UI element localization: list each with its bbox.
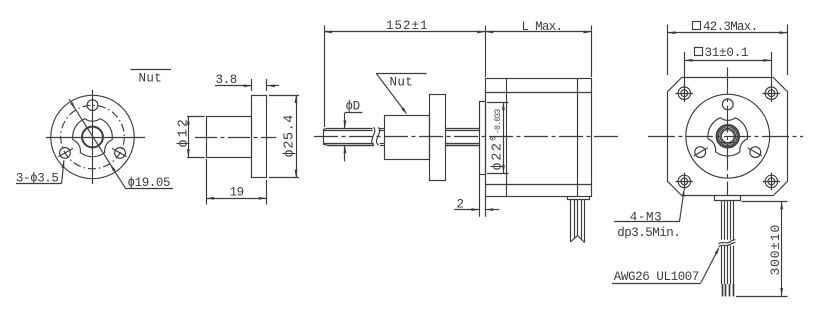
svg-text:dp3.5Min.: dp3.5Min. [617, 226, 680, 240]
nut face vertical centerline [92, 90, 94, 184]
wires (right view) lower part [721, 246, 723, 284]
phi22 tolerance: extension lines [487, 102, 509, 104]
motor pilot boss [480, 102, 486, 175]
Nut leader arrow [376, 73, 406, 113]
leadscrew left segment [328, 128, 373, 130]
3-phi3.5 label underline [16, 183, 62, 185]
phiD label underline [345, 112, 363, 114]
face hole top [722, 99, 733, 110]
phi19.05 label underline [126, 188, 173, 190]
152+-1 dimension line [324, 31, 485, 33]
shared extension line at motor face [485, 26, 487, 78]
motor body outline [486, 79, 592, 197]
mounting hole M3 bottom-right [768, 178, 775, 185]
sq31 dimension line [684, 60, 771, 62]
sq42.3 dimension line [668, 32, 788, 34]
svg-text:3.8: 3.8 [216, 73, 237, 87]
motor face big circle (nut flange phi25.4) [686, 94, 770, 178]
wire break mark [719, 240, 736, 244]
wire collar (right view) [715, 196, 741, 201]
face hole bottom-right [750, 147, 761, 158]
mounting hole M3 top-left [681, 90, 688, 97]
motor face trefoil nut profile [708, 118, 748, 156]
radial mark through face bottom-right hole [748, 148, 762, 156]
Nut label overline (left view) [131, 69, 172, 71]
nut face bolt circle phi19.05 (dash-dot) [61, 105, 125, 169]
300+-10 dimension line [781, 201, 783, 296]
L Max extension line at motor rear [591, 26, 593, 78]
leadscrew segment between flange and motor [445, 128, 479, 130]
motor face square outline with chamfered corners [668, 78, 788, 196]
radial centermark through bottom-right hole [112, 148, 127, 157]
svg-text:4-M3: 4-M3 [630, 210, 662, 224]
motor face horizontal centerline [648, 136, 803, 138]
motor top housing line [485, 92, 591, 94]
svg-text:ϕ25.4: ϕ25.4 [283, 114, 298, 158]
svg-text:Nut: Nut [139, 72, 163, 86]
svg-text:ϕ12: ϕ12 [176, 117, 191, 147]
nut face outer flange circle (phi25.4) [51, 95, 134, 178]
middle view centerline [314, 136, 621, 138]
mounting hole M3 bottom-left [681, 178, 688, 185]
sq42.3 extension lines [667, 25, 669, 76]
wires (right view) upper part [721, 200, 723, 240]
3.8 dimension line [215, 85, 252, 87]
svg-text:AWG26 UL1007: AWG26 UL1007 [614, 270, 699, 284]
mounting hole M3 top-right [768, 90, 775, 97]
nut side view centerline [195, 137, 276, 139]
nut face trefoil body profile [73, 119, 113, 157]
phi12 dimension line with inside arrows [188, 117, 190, 158]
wire collar (middle view) [568, 197, 590, 200]
wires (middle view) [570, 200, 572, 242]
center ring 3 [720, 128, 736, 144]
3.8 extension lines [251, 79, 253, 91]
phi25.4 extension lines [269, 95, 299, 97]
152 dimension extension line (left, at screw end) [324, 26, 326, 128]
center ring 2 [718, 127, 737, 146]
nut flange (middle view) [430, 95, 446, 181]
sq42.3Max label [693, 22, 701, 30]
svg-text:300±10: 300±10 [768, 224, 783, 276]
300+-10 extension lines [742, 201, 788, 203]
nut flange rectangle [252, 96, 267, 178]
center chord (thread flat) [721, 142, 735, 144]
center ring 4 [721, 130, 734, 143]
4-M3 leader arrow to bottom-left mounting hole [679, 191, 684, 222]
svg-text:152±1: 152±1 [386, 19, 429, 33]
sq31 extension lines [684, 52, 686, 86]
4-M3 underline [614, 221, 679, 223]
svg-text:Nut: Nut [390, 75, 414, 89]
sq31+-0.1 label [695, 48, 703, 56]
svg-text:L Max.: L Max. [522, 20, 563, 34]
phi25.4 dimension line [296, 95, 298, 178]
leadscrew left end face with chamfer [323, 129, 325, 144]
2 dimension extension lines [479, 175, 481, 217]
phi22 dimension line [503, 102, 505, 173]
AWG26 leader arrow to wires [701, 248, 719, 283]
leadscrew break symbol [372, 127, 375, 145]
nut boss rectangle [207, 117, 252, 158]
bare wire ends [722, 284, 724, 296]
center rings: outer bold [717, 125, 739, 147]
phi19.05 dimension line across bolt circle [69, 99, 126, 188]
leadscrew short segment before nut [379, 128, 385, 130]
wire ends chevron (middle view) [571, 236, 585, 243]
svg-text:31±0.1: 31±0.1 [705, 46, 749, 60]
3-phi3.5 leader arrow to bottom-left hole [62, 160, 64, 183]
motor front end-cap line [506, 78, 508, 197]
phi12 extension lines [187, 116, 205, 118]
nut face hole top (one of 3-phi3.5) [87, 100, 98, 111]
phiD lower arrow [344, 145, 346, 161]
motor rear end-cap line [577, 78, 579, 197]
motor bottom housing line [485, 184, 591, 186]
svg-text:ϕD: ϕD [346, 100, 360, 114]
phiD upper arrow [344, 113, 346, 128]
nut face hole bottom-left [60, 148, 71, 159]
svg-text:2: 2 [457, 197, 464, 211]
19 extension lines [206, 159, 208, 205]
radial centermark through bottom-left hole [58, 148, 73, 157]
nut face hole bottom-right [115, 148, 126, 159]
L Max dimension line [485, 31, 591, 33]
face hole bottom-left [695, 147, 706, 158]
nut boss (middle view) [385, 116, 430, 160]
radial mark through face bottom-left hole [694, 148, 708, 156]
Nut label overline (middle view) [376, 73, 427, 75]
AWG26 underline [612, 283, 701, 285]
svg-text:ϕ19.05: ϕ19.05 [128, 176, 171, 190]
nut face horizontal centerline [46, 137, 145, 139]
nut face center screw hole (bold circle) [82, 127, 103, 148]
motor face vertical centerline [727, 68, 729, 197]
svg-text:19: 19 [230, 185, 244, 199]
svg-text:42.3Max.: 42.3Max. [703, 20, 757, 34]
2 dimension line with outside arrows [454, 209, 479, 211]
19 dimension line [206, 198, 267, 200]
